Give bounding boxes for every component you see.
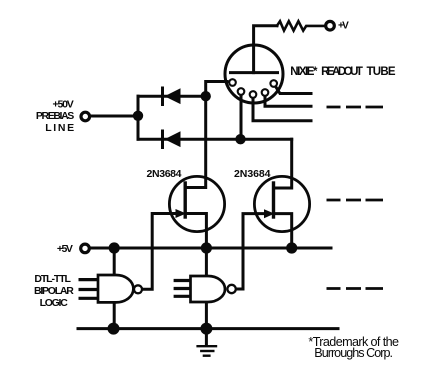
svg-text:LINE: LINE (45, 122, 74, 134)
svg-text:+50V: +50V (53, 99, 74, 111)
svg-text:DTL-TTL: DTL-TTL (34, 273, 71, 285)
svg-text:Burroughs Corp.: Burroughs Corp. (314, 346, 393, 360)
svg-text:LOGIC: LOGIC (40, 297, 69, 309)
svg-text:TUBE: TUBE (367, 66, 396, 78)
svg-text:2N3684: 2N3684 (234, 168, 271, 180)
svg-text:READOUT: READOUT (321, 66, 363, 78)
svg-text:NIXIE*: NIXIE* (290, 66, 318, 78)
svg-text:+V: +V (338, 20, 349, 31)
svg-text:PREBIAS: PREBIAS (36, 110, 74, 122)
svg-text:BIPOLAR: BIPOLAR (34, 285, 74, 297)
svg-text:+5V: +5V (57, 243, 73, 255)
svg-text:2N3684: 2N3684 (147, 168, 182, 180)
